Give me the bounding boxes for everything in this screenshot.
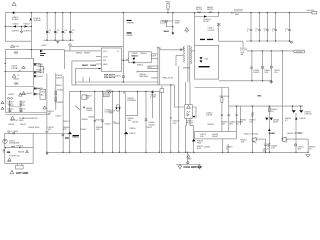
svg-text:+B 140V: +B 140V [306, 10, 315, 12]
svg-text:D6602: D6602 [24, 23, 31, 25]
svg-text:15K: 15K [271, 147, 275, 149]
svg-text:R6650: R6650 [129, 128, 136, 130]
svg-text:D6605: D6605 [73, 137, 80, 139]
svg-text:P601: P601 [7, 131, 13, 133]
svg-text:+150V: +150V [41, 45, 48, 47]
svg-text:R6609: R6609 [127, 35, 134, 37]
svg-text:10K: 10K [264, 72, 268, 74]
svg-text:C6605: C6605 [8, 94, 15, 96]
svg-text:.01: .01 [11, 105, 14, 107]
svg-text:L6602 FERRITE: L6602 FERRITE [22, 118, 38, 120]
svg-text:COLD GROUND: COLD GROUND [183, 166, 201, 169]
svg-text:OCP: OCP [103, 57, 108, 59]
svg-text:0.022U: 0.022U [208, 30, 215, 32]
svg-text:SUPPLY: SUPPLY [12, 30, 21, 32]
svg-text:POSISTOR: POSISTOR [9, 155, 20, 157]
svg-text:C6619: C6619 [104, 95, 109, 97]
svg-text:R6612: R6612 [8, 108, 15, 110]
svg-text:THERM: THERM [127, 22, 135, 24]
svg-text:R6611: R6611 [20, 124, 27, 126]
svg-text:HOT GND: HOT GND [16, 171, 28, 175]
svg-text:R6637: R6637 [96, 120, 103, 122]
svg-text:FUSIBLE: FUSIBLE [127, 100, 136, 102]
svg-text:R6616: R6616 [141, 53, 148, 55]
svg-text:.01: .01 [23, 105, 26, 107]
svg-text:FUSE2: FUSE2 [12, 19, 20, 21]
svg-text:TH6601: TH6601 [16, 146, 24, 148]
svg-text:AC: AC [41, 93, 44, 96]
svg-text:SURGE: SURGE [34, 20, 42, 22]
svg-text:1.2M: 1.2M [19, 111, 23, 113]
svg-text:C6644: C6644 [132, 122, 139, 124]
svg-text:R6649 1K: R6649 1K [219, 96, 229, 98]
svg-text:SUPPLY: SUPPLY [24, 30, 33, 32]
svg-text:C603: C603 [13, 131, 19, 133]
svg-text:C6633: C6633 [8, 124, 15, 126]
svg-text:Z6601: Z6601 [137, 64, 144, 66]
svg-text:Q6601 2SC945: Q6601 2SC945 [244, 133, 259, 135]
svg-text:SUPPLY GND: SUPPLY GND [10, 120, 24, 122]
svg-text:8.2K: 8.2K [197, 148, 202, 150]
svg-text:R6618: R6618 [151, 77, 158, 79]
svg-text:0.22UF: 0.22UF [160, 22, 168, 24]
svg-text:0.047U: 0.047U [253, 72, 260, 74]
svg-text:C6603: C6603 [37, 72, 44, 74]
svg-text:D6611: D6611 [298, 133, 305, 135]
svg-text:1SS270: 1SS270 [304, 114, 312, 116]
svg-text:DEGAUSS: DEGAUSS [9, 142, 20, 145]
svg-text:10K: 10K [241, 142, 245, 144]
svg-text:GND: GND [103, 64, 108, 66]
svg-text:FTR/BL: FTR/BL [11, 68, 19, 70]
svg-text:R6613: R6613 [19, 108, 26, 110]
svg-text:0.015U: 0.015U [105, 111, 112, 113]
svg-text:C6620: C6620 [106, 90, 113, 92]
svg-text:47U: 47U [173, 123, 177, 125]
svg-text:1U: 1U [113, 121, 116, 123]
svg-text:VCC: VCC [103, 51, 108, 53]
svg-text:KA431: KA431 [269, 132, 276, 135]
svg-text:L6602: L6602 [26, 93, 33, 95]
svg-text:0.1UF: 0.1UF [150, 97, 156, 99]
svg-text:TP-W: TP-W [19, 118, 24, 120]
svg-text:LIVE: LIVE [15, 46, 20, 48]
svg-text:R6643: R6643 [80, 129, 87, 131]
svg-text:10K: 10K [128, 120, 132, 122]
svg-text:C6630: C6630 [204, 147, 211, 149]
svg-text:PC123: PC123 [186, 123, 193, 125]
svg-text:4M/5M: 4M/5M [183, 68, 190, 70]
svg-text:1000P: 1000P [206, 115, 213, 117]
svg-text:D6601: D6601 [13, 23, 20, 25]
svg-text:C6605: C6605 [37, 88, 44, 90]
svg-text:R6658: R6658 [18, 151, 25, 153]
svg-text:C6605: C6605 [90, 65, 97, 67]
svg-text:100UF: 100UF [56, 77, 63, 79]
svg-text:C6646: C6646 [88, 117, 95, 119]
svg-text:10K: 10K [96, 129, 100, 131]
svg-text:100UF: 100UF [86, 110, 93, 112]
svg-text:R6610: R6610 [56, 85, 63, 87]
svg-text:C6645: C6645 [105, 123, 112, 125]
svg-text:L6604: L6604 [13, 79, 20, 81]
svg-text:R6641: R6641 [64, 121, 71, 123]
svg-text:47U: 47U [229, 123, 233, 125]
svg-text:R6620: R6620 [57, 90, 64, 92]
svg-text:C6609: C6609 [131, 53, 138, 55]
svg-text:D6607: D6607 [129, 133, 136, 135]
svg-text:100P: 100P [151, 56, 156, 58]
svg-text:FR107: FR107 [203, 21, 210, 23]
svg-text:R6607: R6607 [82, 65, 89, 67]
svg-text:4.7K: 4.7K [169, 77, 174, 79]
svg-text:SBL3040: SBL3040 [139, 76, 148, 78]
svg-text:R6645: R6645 [82, 119, 89, 121]
svg-text:15K: 15K [86, 98, 90, 100]
svg-text:10K: 10K [48, 113, 52, 115]
svg-text:R6648: R6648 [208, 124, 215, 126]
svg-text:2200P: 2200P [37, 66, 44, 68]
svg-text:1.2M: 1.2M [8, 111, 12, 113]
svg-text:SLTB2: SLTB2 [196, 9, 203, 11]
svg-text:F601: F601 [166, 2, 172, 4]
svg-text:D6609: D6609 [299, 118, 306, 120]
svg-text:15K: 15K [221, 123, 225, 125]
svg-text:GND: GND [187, 158, 192, 160]
svg-text:BZ55: BZ55 [273, 121, 279, 123]
svg-text:47K: 47K [63, 129, 67, 131]
svg-text:W601: W601 [164, 31, 170, 33]
svg-text:C6615: C6615 [115, 76, 122, 78]
svg-text:DBT08: DBT08 [207, 9, 214, 11]
svg-text:C6606 450V: C6606 450V [28, 127, 40, 129]
svg-text:C6611: C6611 [56, 116, 63, 118]
svg-text:R6621: R6621 [57, 102, 64, 104]
svg-text:D6603: D6603 [132, 55, 139, 57]
svg-text:R6605: R6605 [84, 53, 91, 55]
svg-text:R6604: R6604 [76, 53, 83, 55]
svg-text:C6604: C6604 [37, 76, 44, 78]
svg-text:150K: 150K [175, 22, 180, 24]
svg-text:+B OUT: +B OUT [295, 52, 303, 54]
svg-text:C6627: C6627 [146, 127, 153, 129]
svg-text:1000P: 1000P [212, 136, 219, 138]
